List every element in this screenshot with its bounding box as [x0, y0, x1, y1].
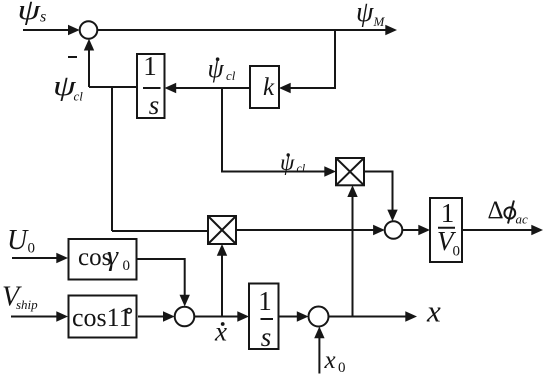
block gain cos11: [69, 296, 137, 338]
arrowhead into lower integrator: [237, 311, 249, 321]
label x0: [324, 347, 346, 376]
svg-text:s: s: [40, 9, 46, 26]
minus sign at S1: [68, 56, 77, 58]
wire V_ship input: [11, 316, 57, 318]
svg-text:cl: cl: [297, 161, 306, 175]
arrowhead up into M2 bottom: [347, 185, 357, 197]
svg-text:ψ: ψ: [356, 0, 374, 28]
arrowhead x output: [405, 311, 417, 321]
label U0: [7, 225, 35, 257]
svg-text:cl: cl: [226, 68, 236, 83]
sum junction S4: [309, 307, 329, 327]
multiplier M1: [208, 216, 236, 244]
wire x output: [329, 316, 407, 318]
block integrator lower 1/s: [249, 284, 279, 353]
label psi_cl: [53, 71, 83, 104]
svg-text:ψ: ψ: [18, 0, 42, 26]
label psi_dot_cl lower: [280, 150, 306, 175]
arrowhead psi_M output: [385, 25, 397, 35]
wire x branch up into M2: [352, 197, 354, 317]
svg-text:ac: ac: [516, 212, 529, 227]
svg-text:cl: cl: [74, 89, 84, 104]
svg-text:ship: ship: [16, 297, 38, 312]
label psi_s: [18, 0, 47, 26]
svg-text:0: 0: [453, 244, 461, 260]
wire 1/V0 output: [462, 229, 532, 231]
label Delta-phi_ac: [488, 197, 529, 227]
arrowhead into cos11 box: [56, 311, 68, 321]
wire M1 output to sum S2: [236, 229, 374, 231]
wire lower integrator output to sum S4: [279, 316, 297, 318]
arrowhead into sum S1 left: [68, 25, 80, 35]
svg-text:1: 1: [258, 286, 272, 316]
svg-text:x: x: [324, 347, 336, 374]
svg-text:0: 0: [338, 360, 346, 376]
arrowhead into k box: [279, 83, 291, 93]
wire psi_cl to multiplier M1: [112, 230, 208, 232]
arrowhead into cos-gamma box: [56, 253, 68, 263]
svg-text:0: 0: [28, 241, 36, 257]
svg-text:cos11: cos11: [72, 303, 132, 332]
sum junction S1: [80, 21, 98, 39]
arrowhead into upper integrator: [165, 83, 177, 93]
arrowhead Delta-phi output: [531, 225, 543, 235]
label psi_dot_cl upper: [208, 54, 236, 83]
label psi_M: [356, 0, 386, 29]
arrowhead x0 up into sum S4: [314, 327, 324, 339]
wire psi_cl branch down: [111, 87, 113, 231]
wire top line to psi_M: [97, 29, 386, 31]
arrowhead into sum S3 left: [163, 311, 175, 321]
sum junction S3: [175, 307, 195, 327]
svg-text:x: x: [426, 294, 441, 329]
svg-text:1: 1: [143, 51, 157, 81]
svg-text:1: 1: [441, 198, 455, 228]
wire feedback branch down to k: [290, 30, 335, 88]
wire up into sum S1: [88, 50, 90, 87]
svg-text:s: s: [149, 90, 160, 120]
arrowhead into M2 left: [324, 166, 336, 176]
svg-text:x: x: [214, 317, 227, 347]
wire U0 input: [12, 257, 57, 259]
svg-text:s: s: [261, 322, 272, 352]
wire k output to integrator: [176, 87, 250, 89]
arrowhead down into sum S2 top: [387, 210, 397, 222]
arrowhead into sum S4 left: [297, 311, 309, 321]
wire M2 output to sum S2: [364, 172, 393, 211]
svg-text:M: M: [373, 14, 386, 29]
wire x0 input up: [318, 338, 320, 374]
wire cos11 output to sum S3: [138, 316, 164, 318]
wire integrator output left: [89, 86, 137, 88]
arrowhead up into M1 bottom: [217, 244, 227, 256]
svg-text:γ: γ: [107, 241, 119, 272]
arrowhead into 1/V0 box: [418, 225, 430, 235]
svg-text:U: U: [7, 225, 29, 256]
arrowhead down into sum S3 top: [180, 295, 190, 307]
wire psi_dot_cl branch down-right to multiplier M2: [222, 88, 325, 172]
block gain cos-gamma0: [69, 239, 137, 280]
svg-text:ψ: ψ: [208, 54, 225, 83]
wire cos-gamma output down to sum S3: [136, 259, 185, 296]
svg-text:0: 0: [123, 258, 131, 274]
wire psi_s input: [23, 29, 70, 31]
wire sum S2 to 1/V0: [402, 229, 418, 231]
wire sum S3 to lower integrator: [194, 316, 238, 318]
svg-text:k: k: [263, 74, 275, 101]
sum junction S2: [385, 221, 403, 239]
block gain k: [250, 66, 279, 108]
label x_dot: [214, 317, 227, 347]
label V_ship: [2, 282, 38, 313]
block integrator upper 1/s: [137, 51, 165, 120]
arrowhead into sum S2 left: [373, 225, 385, 235]
multiplier M2: [336, 158, 364, 185]
arrowhead up into sum S1 bottom: [84, 39, 94, 51]
svg-text:Δ: Δ: [488, 197, 504, 224]
wire x_dot branch up into M1: [221, 255, 223, 317]
block gain 1/V0: [430, 198, 462, 262]
